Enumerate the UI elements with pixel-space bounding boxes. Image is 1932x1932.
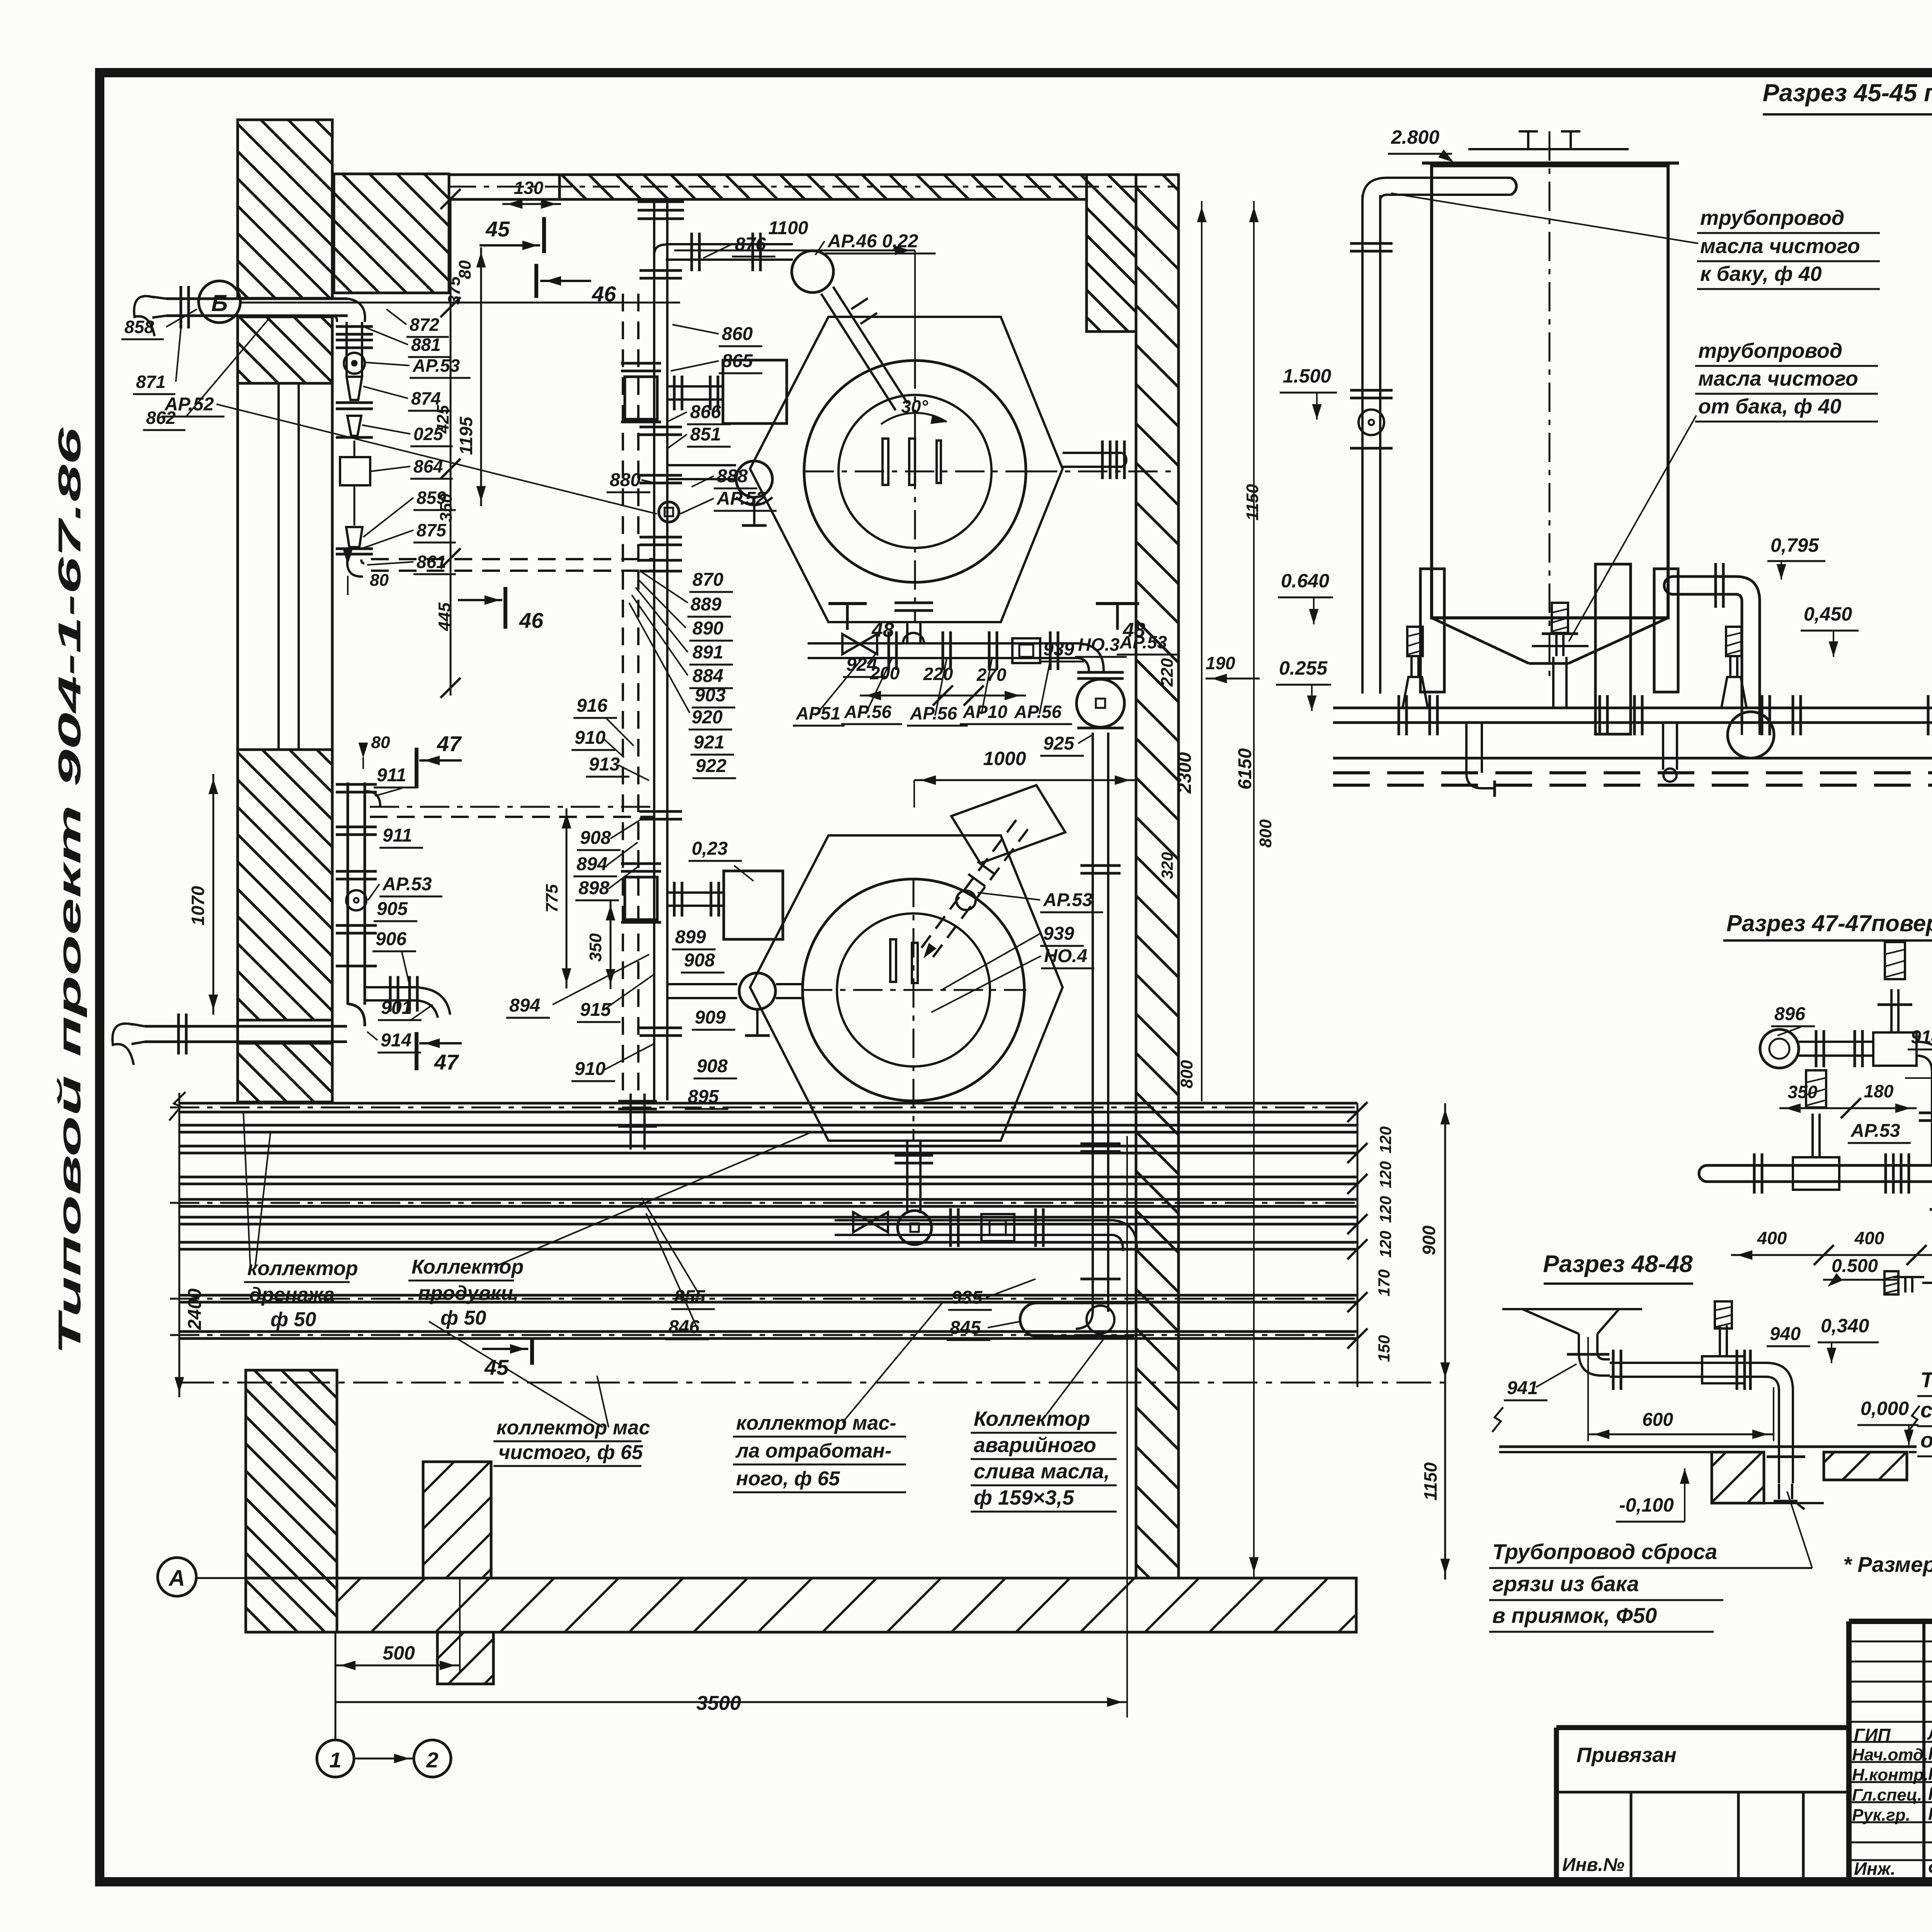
svg-text:АР.56: АР.56 [910,703,957,723]
pipe to box2 [667,882,724,917]
flange below elbow [1077,672,1124,679]
svg-text:47: 47 [434,1050,459,1074]
dim verticals right of wall [1197,201,1259,1578]
elev 0.255 [1276,657,1331,711]
label 866 [668,402,731,424]
dim 200 220 270 [860,663,1026,706]
label 80 mid [359,733,390,769]
svg-text:0,000: 0,000 [1861,1398,1909,1419]
svg-text:910: 910 [575,1059,605,1079]
dim 1100 [674,218,915,359]
svg-text:80: 80 [371,733,390,752]
assembly 2 elbow [1113,1220,1137,1251]
svg-text:400: 400 [1757,1228,1787,1248]
svg-text:270: 270 [976,665,1007,685]
label 911 a [374,765,417,796]
label 845 [947,1318,1020,1340]
svg-text:855: 855 [674,1287,706,1307]
svg-text:775: 775 [543,884,561,913]
diamond box [951,785,1065,863]
wall block top-right hatched [1087,175,1136,332]
svg-text:899: 899 [675,927,706,947]
pipe rack axes [170,1107,1360,1335]
label 859 [363,488,456,537]
svg-text:47: 47 [437,731,462,756]
svg-text:600: 600 [1642,1410,1673,1430]
valve train vertical [336,322,373,377]
pipe hex1 right cap [1063,440,1126,479]
elev 0.450 [1801,603,1859,657]
svg-text:АР.53: АР.53 [1850,1121,1900,1141]
label 862 [143,317,270,430]
label 911 b [379,825,423,848]
valve АР.53 diag [956,891,976,910]
svg-text:масла чистого: масла чистого [1698,367,1858,390]
svg-text:Григорьян: Григорьян [1928,1804,1932,1824]
elbow 861 [347,560,364,577]
note razmery [1843,1552,1932,1577]
wall column bottom-left hatched [246,1370,337,1632]
svg-text:190: 190 [1206,653,1235,673]
section flag 48 left [828,604,894,641]
pipe riser dashed [623,294,638,1100]
section flag 45 bottom [482,1338,532,1379]
label АР.53 [366,355,471,378]
pipe 924 horizontal [808,643,1078,658]
tee cross T1 [621,363,661,422]
svg-text:Коллектор: Коллектор [412,1256,524,1278]
wall band axis [449,186,1175,188]
svg-text:846: 846 [668,1317,699,1337]
label АР.52 left [162,394,657,514]
svg-text:896: 896 [1774,1004,1805,1024]
svg-text:2: 2 [426,1748,438,1772]
svg-text:1000: 1000 [983,748,1026,769]
title Разрез 48-48 [1543,1251,1693,1284]
flanges 924 [889,631,1058,670]
svg-text:АР.53: АР.53 [382,874,432,895]
svg-text:2300: 2300 [1175,752,1195,794]
svg-text:Нач.отд.: Нач.отд. [1852,1745,1928,1764]
svg-text:2400: 2400 [185,1288,205,1330]
47 dims 400 400 145 [1731,1227,1932,1287]
svg-text:0,23: 0,23 [692,838,728,859]
label 906 [372,929,416,985]
48 elbow left [1567,1350,1621,1390]
tank 1 axis [1549,131,1551,680]
svg-text:Гл.спец.: Гл.спец. [1852,1786,1922,1804]
label 855 [641,1198,715,1309]
svg-text:880: 880 [610,470,641,490]
svg-text:180: 180 [1864,1081,1894,1101]
svg-text:коллектор: коллектор [247,1257,358,1280]
compressor 1 inner circle [838,395,992,548]
leader lines column [629,572,690,713]
svg-text:НО.3: НО.3 [1078,634,1120,655]
label 871 [133,321,182,394]
svg-text:860: 860 [722,324,753,344]
dim 130 [502,178,561,209]
compressor 1 slots [883,439,941,485]
svg-text:Б: Б [211,290,228,316]
compressor 1 outer circle [804,361,1026,582]
svg-text:ф 159×3,5: ф 159×3,5 [974,1486,1074,1509]
48 pit hatch left [1712,1452,1764,1503]
pipe riser solid [654,199,667,1100]
48 tee valve [1702,1301,1745,1383]
label 881 [363,327,451,357]
labels АР row [793,702,1072,726]
label 864 [370,456,453,479]
valve circle2 left [739,973,776,1036]
svg-text:922: 922 [696,756,726,776]
svg-text:0.640: 0.640 [1281,570,1329,592]
compressor 2 slots [890,939,918,983]
tank 1 pipe elbow top [1362,178,1516,201]
pipe hex1 left [667,465,736,479]
svg-text:Новицкая: Новицкая [1928,1764,1932,1784]
svg-text:898: 898 [578,878,609,898]
845 capsule [1020,1303,1134,1336]
label трубопровод сброса [1489,1492,1812,1632]
svg-text:884: 884 [692,666,723,686]
elev 0.795 [1767,534,1825,580]
assembly 2 box [981,1214,1014,1241]
section flag 47 top [417,731,462,788]
left margin vertical text [52,427,87,1355]
label АР.52 mid [680,488,777,514]
svg-text:48: 48 [1122,619,1145,641]
svg-text:889: 889 [690,594,721,615]
labels 908 894 898 [573,828,621,900]
drop pipe left [1466,723,1495,797]
dim 80 top-left [456,260,481,279]
tank 1 funnel [1432,618,1668,663]
svg-text:слива масла,: слива масла, [974,1460,1110,1483]
label АР.46 0,22 [815,231,936,255]
svg-text:0,450: 0,450 [1804,603,1852,625]
assembly 2 circle [898,1211,932,1245]
compressor 2 outer circle [803,879,1024,1101]
label 888 [692,466,757,488]
svg-text:6150: 6150 [1235,748,1255,789]
svg-text:45: 45 [485,217,510,241]
compressor 2 axis cross [803,878,1026,1141]
svg-text:* Размеры для справок .: * Размеры для справок . [1843,1552,1932,1577]
elbow 911 top [365,791,380,807]
box 0.23 [724,871,783,939]
svg-text:0,795: 0,795 [1770,534,1819,556]
svg-text:Коган: Коган [1928,1743,1932,1764]
floor band hatched [246,1578,1356,1632]
title Разрез 47-47 [1723,908,1932,988]
tank 1 support column [1595,564,1631,734]
svg-text:914: 914 [1911,1027,1932,1048]
svg-text:1150: 1150 [1420,1462,1440,1500]
wall column shaft [238,383,332,1101]
dim chain left 375-425-350-445 [434,189,464,698]
valve АР.46 circle [792,251,833,293]
privyazan box [1556,1728,1849,1880]
svg-text:Инж.: Инж. [1854,1859,1896,1879]
title Разрез 45-45 [1763,79,1932,114]
elbow riser to horizontal [654,245,666,255]
47 dim 350 180 [1779,1081,1917,1118]
labels 899 908b [672,927,724,973]
labels 915 909 [577,1000,735,1030]
label 905 [374,899,417,921]
svg-text:Федорова: Федорова [1928,1859,1932,1879]
48 floor [1492,1406,1920,1452]
svg-text:дренажа: дренажа [249,1284,335,1306]
svg-text:НО.4: НО.4 [1044,946,1087,966]
47 lower tee [1793,1070,1839,1190]
svg-text:894: 894 [577,854,607,874]
svg-text:АР.46 0,22: АР.46 0,22 [827,231,918,252]
svg-text:46: 46 [519,608,544,633]
svg-text:чистого, ф 65: чистого, ф 65 [498,1441,643,1464]
rack left verticals [618,1094,657,1150]
label коллектор масла отраб [733,1302,943,1492]
compressor 2 inner circle [837,913,990,1066]
label 861 [367,552,456,574]
label коллектор продувки [408,1132,811,1329]
svg-text:130: 130 [514,178,544,198]
svg-text:906: 906 [376,929,406,949]
svg-text:903: 903 [695,685,726,706]
svg-text:445: 445 [435,602,454,631]
bottom run pipes [1333,695,1932,735]
48 pit hatch right [1824,1452,1907,1480]
svg-text:170: 170 [1375,1269,1393,1296]
dim 350b [586,900,615,989]
elev 1.500 [1280,365,1337,420]
drop pipe right [1663,723,1677,782]
svg-text:120: 120 [1376,1126,1395,1153]
svg-text:881: 881 [411,335,441,355]
labels 916 910 913 [571,696,629,777]
svg-text:Трубопровод масла: Трубопровод масла [1920,1367,1932,1392]
svg-text:АР10: АР10 [963,702,1007,722]
svg-text:1195: 1195 [456,416,476,455]
label 914 [367,1030,421,1053]
valve 924 bowtie [842,634,877,654]
svg-text:375: 375 [445,276,464,305]
wall column low hatched [238,1043,332,1102]
svg-text:901: 901 [381,998,412,1018]
box 865 [723,360,787,423]
svg-text:939: 939 [1043,923,1074,944]
valve АР.52 on riser [659,502,679,522]
svg-text:ГИП: ГИП [1854,1725,1891,1745]
svg-text:Привязан: Привязан [1577,1743,1677,1767]
labels АР.53 939 НО.4 [1040,890,1103,968]
label 874 [363,386,451,411]
48 elbow right [1766,1363,1805,1483]
pipe 914 horizontal [131,1014,347,1054]
dim col 120s [1347,1102,1395,1387]
svg-text:915: 915 [580,1000,611,1020]
pipe hex2 left [667,984,803,998]
pump bulb [903,633,924,643]
valve 888 circle [736,461,772,526]
svg-text:Преснов: Преснов [1928,1784,1932,1804]
signature names [1852,1723,1932,1879]
svg-text:320: 320 [1158,852,1176,879]
svg-text:900: 900 [1419,1225,1439,1255]
svg-text:ла отработан-: ла отработан- [735,1440,891,1462]
svg-text:АР.56: АР.56 [1014,702,1062,722]
flange below ball [1077,727,1124,730]
tank 1 pipe valve [1359,410,1384,435]
label 0.23 [689,838,753,881]
dashdot right of circle1 [1028,471,1175,473]
svg-text:220: 220 [1158,658,1177,687]
svg-text:0.500: 0.500 [1832,1256,1878,1276]
regulator bell 1 [1403,627,1428,708]
svg-text:АР.52: АР.52 [164,394,214,415]
svg-text:941: 941 [1507,1378,1538,1398]
47 down pipe [1930,1190,1932,1333]
svg-text:Трубопровод сброса: Трубопровод сброса [1492,1539,1717,1564]
label 875 [361,520,456,549]
item 859 funnel [336,527,373,554]
diagonal pipe from АР.46 [821,287,908,410]
47 upper circle flange [1760,1029,1799,1068]
elev 2.800 [1388,126,1454,162]
svg-text:425: 425 [434,405,452,434]
label 876 [703,234,776,258]
leaders diag [931,893,1041,1012]
tank 1 lid [1422,131,1679,163]
section flag 47 bottom [417,1032,462,1074]
48 pipe bottom [1774,1484,1804,1509]
labels 908c 895 910b [571,1056,737,1109]
dim 1070 [188,774,218,1015]
elbow 924 right [1078,643,1104,673]
axis circle Б [199,281,680,323]
pipe to box 865 [667,376,723,410]
svg-text:Инв.№: Инв.№ [1562,1855,1624,1875]
signature columns [1924,1621,1932,1880]
pipe riser flanges top [638,202,684,219]
svg-text:888: 888 [717,466,748,486]
label 901 [378,998,433,1021]
pipe circle1 down [895,603,933,643]
tank 1 body [1432,166,1668,618]
elev 0.640 [1278,570,1333,624]
compressor 1 hexagon [750,317,1063,622]
47 labels top [1771,997,1932,1049]
label 894 right [506,954,649,1018]
regulator bell 2 [1721,627,1747,708]
pump 0.795 elbow [1664,563,1774,758]
svg-text:910: 910 [575,728,605,748]
svg-text:коллектор мас: коллектор мас [497,1417,650,1439]
svg-text:1: 1 [329,1748,341,1772]
svg-text:ф 50: ф 50 [270,1308,316,1331]
pipe 939 down [895,1141,933,1213]
svg-text:ф 50: ф 50 [440,1307,486,1329]
svg-text:865: 865 [722,351,753,371]
tank 1 drain valve [1532,603,1588,708]
label 925 [1040,733,1094,756]
svg-text:120: 120 [1376,1231,1395,1258]
dim 80 bottom [343,549,389,595]
label 880 [607,470,655,492]
47 side valve [1884,1271,1932,1294]
svg-text:871: 871 [136,372,166,392]
label 935 [948,1279,1036,1310]
48 funnel [1502,1309,1642,1352]
wall band top hatched [449,175,1087,199]
dim 1195 [456,247,486,506]
label 851 [668,424,731,448]
svg-text:страбэтанного Ф40 884: страбэтанного Ф40 884 [1920,1398,1932,1422]
svg-text:908: 908 [684,950,715,971]
47 upper pipe [1799,1030,1873,1067]
svg-text:Коллектор: Коллектор [974,1407,1090,1430]
svg-text:891: 891 [692,642,723,663]
svg-text:к баку, ф 40: к баку, ф 40 [1700,262,1822,286]
svg-text:Рук.гр.: Рук.гр. [1852,1806,1910,1825]
svg-text:858: 858 [124,317,154,337]
valve АР.56 big ball [1077,679,1124,727]
svg-text:80: 80 [456,260,474,279]
signature rows [1849,1641,1932,1860]
leaders 9xx [603,719,655,1070]
svg-text:ного, ф 65: ного, ф 65 [736,1468,840,1490]
svg-text:800: 800 [1177,1060,1196,1088]
svg-text:АР.56: АР.56 [844,702,892,722]
section line 45 dashdot [179,1382,1445,1384]
dim 500 [335,1578,460,1673]
svg-text:911: 911 [377,765,406,786]
label коллектор дренажа [243,1113,358,1331]
svg-text:921: 921 [694,732,724,753]
48 label 940 0.340 [1767,1315,1879,1363]
svg-text:350: 350 [1788,1082,1818,1102]
svg-text:Леонов: Леонов [1927,1723,1932,1743]
dashed pipe 861 to right [371,559,654,571]
svg-text:908: 908 [697,1056,728,1077]
svg-text:908: 908 [580,828,611,848]
pipe to АР.46 [666,233,793,271]
svg-text:0.255: 0.255 [1279,657,1328,679]
axis circle 2 [354,1740,451,1777]
svg-text:916: 916 [577,696,607,716]
svg-text:939: 939 [1043,639,1074,660]
pipe 911 dashdot [370,807,655,817]
47 leaders [1905,1078,1932,1144]
svg-text:2.800: 2.800 [1391,126,1439,148]
svg-text:872: 872 [410,315,439,335]
valve AP53 ball [344,353,365,374]
svg-text:851: 851 [690,424,721,445]
section flag 45 top [480,217,544,253]
flanges on riser [639,270,682,1036]
svg-text:Разрез 47-47повернуто: Разрез 47-47повернуто [1726,910,1932,936]
svg-text:-0,100: -0,100 [1619,1494,1674,1516]
dashed diagonal 939 pipe [917,820,1028,964]
svg-text:905: 905 [377,899,408,919]
svg-text:220: 220 [923,664,953,684]
935 elbow [1076,1312,1093,1329]
48 pit lines [1764,1452,1824,1503]
47 lower pipe [1699,1153,1932,1194]
label 924 [843,653,887,677]
svg-text:909: 909 [695,1007,726,1028]
